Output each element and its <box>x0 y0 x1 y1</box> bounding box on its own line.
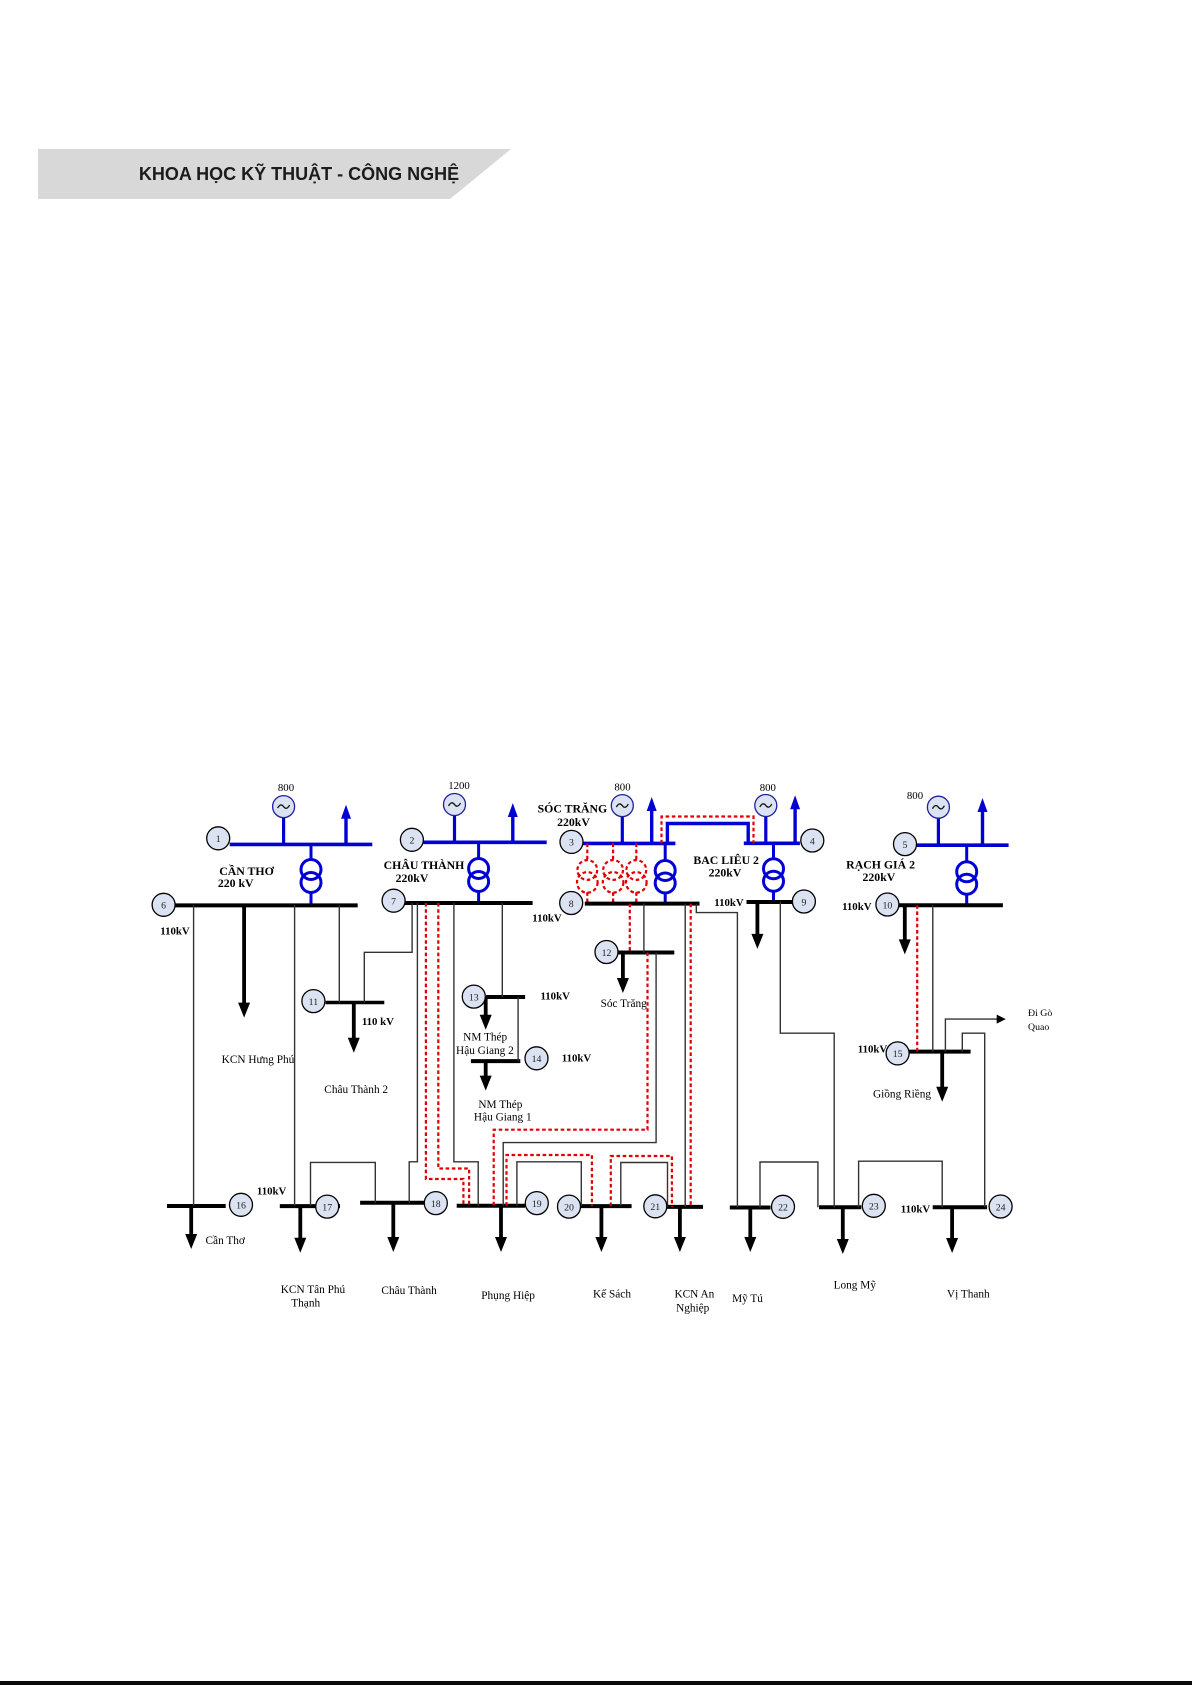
bus 5 (Rạch Giá 2 220kV) <box>916 843 1008 847</box>
generator G1 (800 MW) <box>273 782 295 844</box>
svg-text:110kV: 110kV <box>540 991 570 1003</box>
planned line (red dashed) bus8 - bus21 <box>690 904 692 1207</box>
load arrow Châu Thành <box>387 1203 399 1252</box>
node 2 <box>400 828 423 851</box>
bottom page bar <box>0 1681 1192 1685</box>
wire bus8 - bus22 <box>696 904 737 1208</box>
svg-text:13: 13 <box>469 992 479 1003</box>
power injection arrow Châu Thành <box>508 803 518 842</box>
bus 1 (Cần Thơ 220kV) <box>230 843 373 847</box>
svg-text:17: 17 <box>322 1202 332 1213</box>
node 20 <box>558 1195 581 1218</box>
svg-text:5: 5 <box>903 840 908 851</box>
transformer T3 Sóc Trăng <box>655 843 675 903</box>
node 15 <box>886 1042 909 1065</box>
svg-text:2: 2 <box>409 836 414 847</box>
svg-text:Nghiệp: Nghiệp <box>676 1303 710 1315</box>
wire bus12 - bus19 <box>503 953 656 1206</box>
generator G3 (800 MW) <box>611 782 633 844</box>
node 6 <box>152 893 175 916</box>
svg-text:220kV: 220kV <box>557 815 590 829</box>
svg-text:220kV: 220kV <box>863 870 896 884</box>
svg-text:800: 800 <box>760 782 776 794</box>
node 8 <box>560 892 583 915</box>
svg-text:800: 800 <box>614 782 630 794</box>
svg-text:24: 24 <box>996 1202 1006 1213</box>
node 17 <box>316 1195 339 1218</box>
svg-text:KCN Hưng Phú: KCN Hưng Phú <box>222 1054 295 1066</box>
wire bus7 - bus11 <box>364 903 412 1003</box>
bus 9 (Bạc Liêu 110kV) <box>747 900 794 904</box>
svg-text:SÓC TRĂNG: SÓC TRĂNG <box>538 802 608 816</box>
svg-text:110kV: 110kV <box>562 1053 592 1065</box>
bus 2 (Châu Thành 220kV) <box>423 840 546 844</box>
bus 11 (Châu Thành 2) <box>326 1001 385 1005</box>
svg-text:22: 22 <box>778 1203 788 1214</box>
svg-text:Giồng Riềng: Giồng Riềng <box>873 1089 931 1101</box>
generator G2 (1200 MW) <box>444 780 470 842</box>
bus 8 (Sóc Trăng 110kV) <box>585 902 700 906</box>
power injection arrow Bạc Liêu 2 <box>790 795 800 843</box>
wire bus8 - bus12 <box>643 904 645 953</box>
svg-text:220kV: 220kV <box>709 865 742 879</box>
svg-text:800: 800 <box>907 790 923 802</box>
load arrow NM Thép Hậu Giang 2 <box>480 997 492 1030</box>
load arrow Phụng Hiệp <box>495 1206 507 1252</box>
bus 21 (KCN An Nghiệp) <box>665 1205 703 1209</box>
wire bus9 - bus23 <box>780 902 834 1207</box>
planned line (red dashed) bus10 - bus15 <box>916 905 918 1051</box>
wire bus22 - bus23 <box>760 1162 818 1208</box>
node 5 <box>894 833 917 856</box>
svg-text:4: 4 <box>810 836 815 847</box>
bus 12 (Sóc Trăng) <box>617 951 675 955</box>
wire bus20 - bus21 <box>621 1163 668 1207</box>
load arrow Mỹ Tú <box>744 1208 756 1253</box>
wire bus8 - bus21 <box>684 904 686 1207</box>
svg-text:20: 20 <box>564 1202 574 1213</box>
svg-text:110kV: 110kV <box>858 1044 888 1056</box>
svg-text:3: 3 <box>569 838 574 849</box>
svg-text:8: 8 <box>569 899 574 910</box>
svg-text:23: 23 <box>869 1202 879 1213</box>
svg-text:Kế Sách: Kế Sách <box>593 1289 631 1301</box>
load arrow Giồng Riềng <box>936 1052 948 1102</box>
wire 220kV tie Sóc Trăng - Bạc Liêu 2 (blue) <box>667 824 748 844</box>
load arrow Long Mỹ <box>837 1207 849 1254</box>
load arrow Sóc Trăng <box>617 953 629 994</box>
node 24 <box>989 1195 1012 1218</box>
bus 17 (KCN Tân Phú Thạnh) <box>280 1204 340 1208</box>
svg-text:Thạnh: Thạnh <box>291 1298 320 1310</box>
svg-text:220kV: 220kV <box>396 871 429 885</box>
transformer T4 Bạc Liêu 2 <box>764 843 784 902</box>
node 4 <box>801 829 824 852</box>
bus 19 (Phụng Hiệp) <box>457 1204 525 1208</box>
load arrow Kế Sách <box>595 1206 607 1252</box>
generator G5 (800 MW) <box>907 790 950 845</box>
svg-text:Châu Thành 2: Châu Thành 2 <box>324 1084 388 1096</box>
svg-text:Phụng Hiệp: Phụng Hiệp <box>481 1290 535 1302</box>
svg-text:Đi Gò: Đi Gò <box>1028 1008 1052 1019</box>
svg-text:6: 6 <box>161 901 166 912</box>
wire bus10 - bus15 <box>932 905 934 1051</box>
planned line (red dashed) bus7 - bus19 a <box>426 903 464 1206</box>
svg-text:Long Mỹ: Long Mỹ <box>834 1280 877 1292</box>
planned line (red dashed) bus20 - bus21 <box>611 1156 672 1207</box>
svg-text:KCN An: KCN An <box>674 1289 714 1301</box>
transformer T5 Rạch Giá 2 <box>957 845 977 905</box>
transformer T1 Cần Thơ <box>301 844 321 905</box>
node 14 <box>525 1047 548 1070</box>
svg-text:220 kV: 220 kV <box>218 876 254 890</box>
bus 4 (Bạc Liêu 2 220kV) <box>744 841 800 845</box>
wire bus7 - bus18 <box>409 903 417 1203</box>
load arrow NM Thép Hậu Giang 1 <box>480 1061 492 1091</box>
label Đi Gò Quao <box>1028 1008 1052 1033</box>
node 23 <box>862 1194 885 1217</box>
bus 15 (Giồng Riềng) <box>908 1050 971 1054</box>
bus 24 (Vị Thanh) <box>933 1205 987 1209</box>
bus 6 (Cần Thơ 110kV) <box>175 903 358 907</box>
bus 22 (Mỹ Tú) <box>730 1206 771 1210</box>
svg-text:7: 7 <box>391 897 396 908</box>
label KCN Tân Phú Thạnh <box>281 1284 346 1310</box>
node 7 <box>382 889 405 912</box>
bus 14 (NM Thép Hậu Giang 1) <box>471 1059 520 1063</box>
planned transformer (red dashed) Sóc Trăng a <box>577 843 598 903</box>
node 11 <box>302 990 325 1013</box>
wire to Gò Quao with arrowhead <box>945 1015 1005 1052</box>
label BAC LIÊU 2 220kV <box>693 853 759 879</box>
power injection arrow Rạch Giá 2 <box>978 798 988 845</box>
wire bus6 - bus17 <box>294 905 296 1206</box>
load arrow KCN Hưng Phú <box>238 905 250 1017</box>
wire bus13 - bus14 <box>517 997 519 1061</box>
svg-text:Sóc Trăng: Sóc Trăng <box>601 998 647 1010</box>
svg-text:110kV: 110kV <box>257 1186 287 1198</box>
svg-text:KHOA HỌC KỸ THUẬT - CÔNG NGHỆ: KHOA HỌC KỸ THUẬT - CÔNG NGHỆ <box>139 163 459 184</box>
load arrow Vị Thanh <box>946 1207 958 1253</box>
svg-text:19: 19 <box>532 1199 542 1210</box>
svg-text:Hậu Giang 2: Hậu Giang 2 <box>456 1045 514 1057</box>
label KCN An Nghiệp <box>674 1289 714 1315</box>
svg-text:CHÂU THÀNH: CHÂU THÀNH <box>384 858 465 872</box>
svg-text:Hậu Giang 1: Hậu Giang 1 <box>474 1112 532 1124</box>
node 12 <box>595 941 618 964</box>
label SÓC TRĂNG 220kV <box>538 802 608 830</box>
svg-text:9: 9 <box>801 897 806 908</box>
bus 23 (Long Mỹ) <box>819 1205 861 1209</box>
node 19 <box>525 1192 548 1215</box>
svg-text:21: 21 <box>650 1202 660 1213</box>
bus 13 (NM Thép Hậu Giang 2) <box>486 995 525 999</box>
bus 3 (Sóc Trăng 220kV) <box>581 842 675 846</box>
planned line (red dashed) bus7 - bus19 b <box>438 903 469 1206</box>
wire bus7 - bus19 <box>454 903 478 1206</box>
node 18 <box>424 1192 447 1215</box>
load arrow Rạch Giá <box>899 905 911 954</box>
svg-text:14: 14 <box>532 1054 542 1065</box>
node 10 <box>876 893 899 916</box>
load arrow KCN An Nghiệp <box>674 1207 686 1252</box>
bus 16 (Cần Thơ) <box>167 1204 226 1208</box>
svg-text:110kV: 110kV <box>160 926 190 938</box>
svg-text:12: 12 <box>602 948 612 959</box>
wire bus17 - bus18 <box>311 1162 376 1206</box>
svg-text:18: 18 <box>431 1199 441 1210</box>
node 13 <box>462 985 485 1008</box>
label CẦN THƠ 220kV <box>218 863 275 890</box>
node 1 <box>207 827 230 850</box>
planned line (red dashed) 220kV tie Sóc Trăng - Bạc Liêu 2 <box>662 817 754 844</box>
wire bus6 - bus16 <box>193 905 195 1206</box>
node 3 <box>560 830 583 853</box>
wire bus23 - bus24 <box>859 1161 943 1207</box>
svg-text:110kV: 110kV <box>842 901 872 913</box>
planned line (red dashed) bus8 - bus12 <box>629 904 631 953</box>
svg-text:110kV: 110kV <box>901 1204 931 1216</box>
svg-text:10: 10 <box>883 900 893 911</box>
svg-text:NM Thép: NM Thép <box>478 1099 522 1111</box>
svg-text:110kV: 110kV <box>532 913 562 925</box>
svg-text:KCN Tân Phú: KCN Tân Phú <box>281 1284 346 1296</box>
svg-text:11: 11 <box>309 997 319 1008</box>
planned line (red dashed) bus12 - bus19 <box>494 953 648 1206</box>
wire bus6 - bus11 <box>338 905 340 1002</box>
svg-text:15: 15 <box>893 1049 903 1060</box>
wire bus7 - bus13 <box>501 903 503 997</box>
svg-text:Quao: Quao <box>1028 1022 1049 1033</box>
planned transformer (red dashed) Sóc Trăng c <box>626 843 647 903</box>
generator G4 (800 MW) <box>755 782 777 843</box>
node 9 <box>792 890 815 913</box>
svg-text:110kV: 110kV <box>714 897 744 909</box>
svg-text:NM Thép: NM Thép <box>463 1032 507 1044</box>
load arrow Châu Thành 2 <box>348 1003 360 1053</box>
label NM Thép Hậu Giang 2 <box>456 1032 514 1058</box>
header banner <box>38 149 511 199</box>
svg-text:800: 800 <box>278 782 294 794</box>
svg-text:Cần Thơ: Cần Thơ <box>206 1235 246 1247</box>
node 21 <box>644 1195 667 1218</box>
transformer T2 Châu Thành <box>469 842 489 903</box>
power injection arrow Cần Thơ <box>341 805 351 845</box>
label CHÂU THÀNH 220kV <box>384 858 465 885</box>
label RẠCH GIÁ 2 220kV <box>846 858 915 885</box>
node 22 <box>772 1195 795 1218</box>
svg-text:Mỹ Tú: Mỹ Tú <box>732 1293 763 1305</box>
bus 10 (Rạch Giá 110kV) <box>896 903 1003 907</box>
svg-text:110 kV: 110 kV <box>362 1016 394 1028</box>
load arrow Cần Thơ <box>185 1206 197 1249</box>
svg-text:1200: 1200 <box>448 780 470 792</box>
bus 7 (Châu Thành 110kV) <box>405 901 533 905</box>
wire bus19 - bus20 <box>517 1162 581 1206</box>
load arrow Bạc Liêu <box>751 902 763 949</box>
svg-text:16: 16 <box>236 1201 246 1212</box>
bus 18 (Châu Thành) <box>360 1201 424 1205</box>
svg-text:Châu Thành: Châu Thành <box>381 1285 437 1297</box>
svg-text:1: 1 <box>216 834 221 845</box>
load arrow KCN Tân Phú Thạnh <box>294 1206 306 1253</box>
svg-text:Vị Thanh: Vị Thanh <box>947 1289 990 1301</box>
bus 20 (Kế Sách) <box>580 1204 631 1208</box>
power injection arrow Sóc Trăng <box>647 797 657 843</box>
wire bus15 - bus24 <box>962 1033 984 1207</box>
label NM Thép Hậu Giang 1 <box>474 1099 532 1124</box>
planned line (red dashed) bus19 - bus20 <box>507 1155 592 1206</box>
node 16 <box>230 1193 253 1216</box>
planned transformer (red dashed) Sóc Trăng b <box>603 843 624 903</box>
